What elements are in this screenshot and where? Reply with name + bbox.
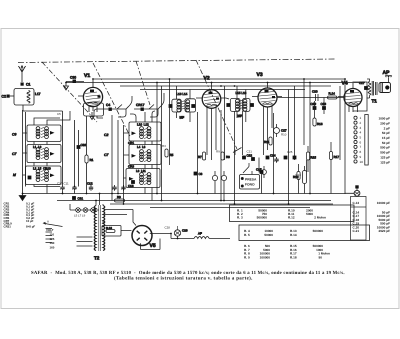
core hatches MF1: [182, 101, 185, 109]
wire C11b down: [74, 191, 76, 194]
svg-text:50000: 50000: [264, 233, 273, 237]
chassis dash-dot horizontal line: [18, 59, 335, 63]
middle coil box A: [129, 122, 161, 141]
vertical wire x161.5: [161, 86, 163, 201]
tube V2: [196, 76, 226, 115]
core hatches mbox C: [144, 175, 147, 185]
svg-text:2920 pF: 2920 pF: [378, 229, 390, 233]
svg-text:C18: C18: [321, 102, 327, 106]
svg-text:2: 2: [360, 121, 362, 125]
wire V1 cathode down: [87, 116, 104, 155]
wire C29 stub: [177, 236, 179, 238]
coil L3: [45, 127, 49, 139]
core hatches mbox B: [144, 152, 147, 162]
svg-text:C31: C31: [78, 197, 84, 201]
coil L2b: [36, 170, 40, 182]
coil L12: [147, 127, 151, 139]
trimmer arrow box A: [50, 131, 55, 135]
jack circle J1: [212, 171, 217, 185]
capacitor C1: [21, 83, 31, 87]
resistor R15 vertical: [329, 152, 339, 160]
svg-text:C32: C32: [81, 143, 87, 147]
wire V2 plate link: [226, 98, 229, 99]
wire C32 vertical: [78, 130, 80, 187]
svg-text:6: 6: [360, 140, 362, 144]
svg-text:C19: C19: [311, 102, 317, 106]
tube V1: [78, 73, 103, 112]
resistor R2 horizontal: [115, 195, 125, 202]
vertical wire x234.5: [234, 111, 236, 204]
svg-text:C7: C7: [104, 153, 108, 157]
ground left of V1: [64, 83, 69, 91]
svg-text:R15: R15: [311, 156, 317, 160]
wire left column A: [22, 110, 24, 194]
dial lamp 2: [83, 208, 88, 213]
resistor R15b vertical: [306, 152, 316, 160]
wire x259: [259, 158, 262, 194]
svg-text:5000: 5000: [306, 212, 313, 216]
capacitor C12 hatched: [87, 182, 93, 191]
capacitor C26 blob: [293, 156, 297, 160]
lamp jack circle right: [345, 185, 360, 196]
middle coil box B: [129, 145, 161, 165]
R table box 2: [239, 225, 370, 241]
svg-text:C24: C24: [270, 154, 276, 158]
voltage selector arm: [44, 222, 63, 226]
svg-text:R7: R7: [198, 155, 202, 159]
capacitor C18b blob: [194, 172, 203, 176]
coil L4: [140, 150, 144, 162]
electrolytic C13 small: [262, 166, 267, 178]
svg-text:R.14: R.14: [290, 233, 297, 237]
presa fono box: [240, 175, 260, 190]
vertical wire x64: [30, 111, 63, 185]
svg-text:C22: C22: [247, 154, 253, 158]
svg-text:L1 L3: L1 L3: [33, 145, 42, 149]
MF1 top wires: [177, 86, 191, 122]
top bus wire 1: [93, 78, 345, 80]
wire V2 pins down: [207, 114, 216, 160]
svg-text:R. 5: R. 5: [244, 233, 250, 237]
capacitor C19 blob: [311, 102, 317, 110]
resistor R14 on line: [328, 92, 338, 100]
coil L8: [140, 173, 144, 185]
svg-text:FONO: FONO: [245, 183, 255, 187]
vertical wire x242.5: [242, 111, 244, 155]
svg-text:C.13: C.13: [353, 201, 360, 205]
svg-text:PRESA: PRESA: [245, 178, 257, 182]
fuse box R18: [102, 226, 121, 237]
svg-text:R5: R5: [170, 153, 174, 157]
wire jacks down: [215, 185, 224, 201]
tube V3: [252, 72, 282, 113]
capacitor C16 in box C: [128, 180, 135, 188]
IF transformer MF1 box L14: [185, 99, 196, 112]
IF transformer MF1 box L13: [172, 99, 181, 112]
dial lamp 1: [76, 208, 81, 213]
svg-text:160: 160: [50, 245, 55, 249]
svg-text:C7: C7: [12, 152, 16, 156]
wire C10b down: [62, 191, 64, 194]
capacitor C2: [2, 95, 15, 99]
vertical wire x197.5: [197, 112, 199, 194]
CR capacitor table: [4, 202, 36, 229]
capacitor C17b blob: [364, 86, 368, 90]
wires T2 to V5: [77, 210, 161, 250]
svg-text:5: 5: [360, 136, 362, 140]
svg-text:500 pF: 500 pF: [380, 146, 390, 150]
tube V5: [132, 226, 156, 250]
svg-text:R16: R16: [317, 122, 323, 126]
T2 top connections: [96, 194, 103, 206]
left coil box A: [27, 125, 61, 142]
vertical wire x157: [156, 83, 158, 194]
vertical wire x310: [309, 83, 311, 194]
svg-text:R17: R17: [334, 155, 340, 159]
capacitor C32 blob: [77, 143, 87, 149]
svg-text:9: 9: [360, 155, 362, 159]
vertical wire x221: [220, 110, 222, 201]
lamp wires: [70, 204, 99, 210]
svg-text:10000 pF: 10000 pF: [377, 201, 390, 205]
vertical wire x169.5: [169, 79, 171, 165]
hook wire S1b: [118, 96, 132, 117]
svg-text:50 pF: 50 pF: [382, 131, 390, 135]
cathode arrow V1: [90, 112, 94, 120]
socket circles under V4: [354, 116, 357, 163]
middle coil box C: [126, 169, 160, 188]
C labels box: [351, 197, 367, 241]
capacitor C15 blob: [256, 168, 263, 174]
electrolytic C27 under V3: [274, 124, 287, 137]
capacitor C30: [70, 76, 76, 84]
svg-text:50 pF: 50 pF: [382, 141, 390, 145]
hook wire S2b: [150, 93, 164, 117]
coil L16: [243, 99, 247, 111]
svg-text:V5: V5: [150, 243, 156, 249]
svg-text:C28: C28: [165, 226, 171, 230]
svg-text:CR21: CR21: [4, 225, 12, 229]
svg-text:7: 7: [360, 145, 362, 149]
capacitor C25h hatched: [274, 157, 278, 163]
left coil box C: [26, 166, 62, 185]
svg-text:R8: R8: [226, 155, 230, 159]
capacitor C20 on line: [312, 90, 318, 102]
svg-text:R3: R3: [117, 195, 121, 199]
coil L3b: [45, 148, 49, 160]
svg-text:1: 1: [360, 116, 362, 120]
blob cap MF2 left: [226, 103, 230, 107]
dash-dot gang link D3: [136, 61, 150, 105]
svg-text:8: 8: [360, 150, 362, 154]
bottom ground bus: [23, 193, 346, 195]
wire C30 to V1: [66, 81, 84, 83]
svg-text:C21: C21: [247, 150, 253, 154]
left coil box B: [27, 145, 61, 163]
svg-text:T2: T2: [94, 256, 100, 261]
IF transformer MF2 box L16: [243, 98, 251, 111]
svg-text:L2 L5 CR10: L2 L5 CR10: [33, 166, 51, 170]
wire to switch from box top: [34, 111, 70, 125]
svg-text:C12: C12: [87, 182, 93, 186]
hook wire S1 to box: [94, 109, 103, 116]
coil L13: [177, 100, 181, 112]
capacitor C34 hatched: [112, 185, 116, 191]
wire V3 pins down: [264, 113, 273, 155]
vertical wire x306: [306, 160, 308, 172]
svg-text:500000: 500000: [257, 216, 268, 220]
dash-dot gang link D4: [196, 60, 237, 149]
svg-text:C2: C2: [104, 133, 108, 137]
svg-text:CR3: CR3: [128, 165, 134, 169]
resistor R11 under V3: [264, 137, 272, 145]
capacitor C25 blob: [284, 156, 288, 160]
electrolytic C29: [174, 226, 188, 236]
resistor R1 vertical: [85, 155, 94, 163]
coil L15: [235, 99, 239, 111]
resistor value table: [237, 208, 330, 259]
tube V4: [338, 81, 362, 113]
svg-text:125 pF: 125 pF: [380, 155, 390, 159]
power transformer T2: [94, 205, 105, 261]
svg-text:M: M: [13, 173, 16, 177]
svg-text:L4 L6: L4 L6: [137, 145, 146, 149]
svg-text:L13 L14: L13 L14: [177, 92, 188, 96]
core hatches MF2: [241, 100, 243, 108]
capacitor C23 blob: [251, 157, 255, 161]
dash-dot gang link D1: [42, 62, 97, 122]
vertical wire x273.5: [273, 113, 275, 194]
trimmer arrow mbox B: [132, 154, 137, 158]
svg-text:R10: R10: [281, 133, 287, 137]
capacitor C24 blob: [266, 154, 276, 160]
vertical wire x294.5: [294, 86, 296, 160]
bottom bus 4: [150, 207, 310, 209]
svg-text:A: A: [47, 220, 49, 224]
svg-text:R11: R11: [264, 140, 270, 144]
svg-text:C10 C11: C10 C11: [57, 182, 69, 186]
wire box tops to switch: [130, 111, 155, 122]
blob cap MF2 right: [250, 103, 254, 107]
svg-text:C9: C9: [12, 133, 16, 137]
svg-text:L17: L17: [35, 92, 41, 96]
svg-text:C16: C16: [128, 184, 134, 188]
capacitor C18 blob: [321, 102, 327, 110]
trimmer arrow box C: [50, 174, 55, 178]
svg-text:C20: C20: [312, 90, 318, 94]
svg-text:V3: V3: [257, 72, 263, 78]
svg-text:C25: C25: [287, 150, 293, 154]
MF2 top wires: [237, 86, 246, 122]
resistor R7 col: [198, 152, 206, 160]
wires left boxes to columns: [23, 133, 61, 194]
wires middle boxes verticals: [112, 115, 124, 204]
output box around V4 plate: [353, 82, 368, 111]
svg-text:100000: 100000: [260, 255, 271, 259]
core hatches box C: [41, 171, 44, 181]
capacitor C17 top: [359, 81, 365, 85]
R table box: [230, 205, 355, 222]
wire antenna box down: [23, 105, 30, 111]
vertical wire x304: [303, 79, 305, 145]
svg-text:MF: MF: [238, 114, 243, 118]
svg-text:C.21: C.21: [353, 229, 360, 233]
svg-text:R.12: R.12: [288, 216, 295, 220]
scattered small labels: [57, 112, 301, 230]
trimmer arrow mbox C: [129, 177, 134, 181]
switch S2 with CR17: [134, 103, 161, 111]
right capacitor values column 2: [353, 201, 391, 233]
wire V3 to V4 plate line: [277, 97, 344, 99]
coil L11: [147, 173, 151, 185]
svg-text:2 pF: 2 pF: [384, 126, 390, 130]
resistor R5 col: [165, 149, 174, 157]
choke AF: [171, 232, 230, 239]
svg-text:90: 90: [319, 255, 323, 259]
vertical wire x224.5: [224, 86, 226, 160]
core hatches box A: [41, 128, 44, 138]
antenna coil box: [14, 89, 34, 106]
coil L6: [147, 150, 151, 162]
switch S1 with C4: [103, 103, 129, 111]
vertical wire x340: [339, 86, 341, 160]
svg-text:R13: R13: [296, 173, 302, 177]
top bus wire 4: [140, 89, 305, 91]
svg-text:V1: V1: [84, 73, 90, 79]
svg-text:125 pF: 125 pF: [380, 160, 390, 164]
svg-text:R1: R1: [90, 158, 94, 162]
svg-text:C30: C30: [70, 76, 76, 80]
right capacitor values column 1: [378, 117, 390, 165]
top bus wire 3: [120, 85, 331, 87]
trimmer arrow mbox A: [132, 132, 137, 136]
svg-text:C1: C1: [26, 83, 31, 87]
svg-text:3: 3: [360, 126, 362, 130]
blob cap MF1 left: [169, 104, 173, 108]
switch above presa fono: [243, 163, 252, 175]
svg-text:L8 L11: L8 L11: [136, 169, 146, 173]
svg-text:200 pF: 200 pF: [380, 121, 390, 125]
socket box under V1: [84, 103, 104, 116]
svg-text:4: 4: [360, 131, 362, 135]
svg-text:L5 L7 L9: L5 L7 L9: [74, 214, 86, 218]
svg-text:CR1: CR1: [128, 141, 134, 145]
coil L5: [45, 170, 49, 182]
svg-text:C4: C4: [106, 103, 110, 107]
svg-text:T1: T1: [372, 99, 378, 104]
svg-text:R9: R9: [216, 150, 220, 154]
core hatches mbox A: [144, 129, 147, 139]
capacitor C22 blob: [242, 154, 252, 160]
svg-text:500 pF: 500 pF: [380, 151, 390, 155]
svg-text:10: 10: [360, 160, 364, 164]
dial lamp 3: [91, 208, 96, 213]
svg-text:R. 3: R. 3: [237, 216, 243, 220]
svg-text:C8: C8: [199, 172, 203, 176]
capacitor C10b hatched: [60, 185, 64, 191]
svg-text:R. 9: R. 9: [244, 255, 250, 259]
socket pin numbers: [360, 116, 364, 164]
blob cap MF1 right: [191, 104, 195, 108]
trimmer arrow box B: [50, 152, 55, 156]
svg-text:R.18: R.18: [290, 255, 297, 259]
svg-text:V2: V2: [204, 76, 210, 82]
svg-text:MF: MF: [180, 116, 185, 120]
VOLT label: [46, 228, 55, 249]
capacitor C35 hatched: [121, 185, 125, 191]
svg-text:R.18: R.18: [106, 226, 112, 230]
wire R1 down: [86, 163, 88, 194]
svg-text:15 pF: 15 pF: [382, 136, 390, 140]
vertical wire x288.5: [288, 90, 290, 205]
resistor R8 col: [221, 152, 230, 160]
svg-text:L10 L12: L10 L12: [137, 123, 149, 127]
ground arrow bottom left: [19, 194, 26, 201]
switch arm at D4 end: [233, 148, 242, 156]
antenna: [18, 66, 25, 82]
svg-text:R.14: R.14: [329, 92, 336, 96]
svg-text:1000 pF: 1000 pF: [378, 117, 390, 121]
electrolytic block: [303, 166, 307, 194]
jack circle J2: [221, 171, 226, 185]
coil L1: [36, 148, 40, 160]
svg-text:CR17: CR17: [136, 103, 145, 107]
coil L10: [140, 127, 144, 139]
dial rectangle: [365, 115, 368, 166]
svg-text:C2: C2: [2, 95, 7, 99]
svg-text:2 Mohm: 2 Mohm: [314, 216, 326, 220]
svg-text:C17: C17: [359, 81, 365, 85]
svg-text:10 µF: 10 µF: [26, 219, 34, 223]
output transformer T1: [367, 79, 378, 104]
svg-text:(Tabella tensioni e istruzioni: (Tabella tensioni e istruzioni taratura …: [114, 275, 253, 281]
capacitor C11b hatched: [72, 185, 76, 191]
speaker AP: [379, 70, 392, 93]
coil L17: [27, 91, 41, 104]
coil L2: [36, 127, 40, 139]
coil L14: [186, 100, 190, 112]
bottom bus 2: [57, 200, 331, 202]
svg-text:AP: AP: [383, 70, 391, 76]
top bus wire 2: [66, 82, 365, 84]
vertical wire x345: [344, 79, 346, 194]
bottom bus 3: [110, 203, 333, 205]
svg-text:AF: AF: [198, 232, 202, 236]
IF transformer MF2 box L15: [230, 98, 240, 111]
wire R15 stubs: [308, 142, 331, 194]
svg-text:C5: C5: [57, 112, 61, 116]
svg-text:R4: R4: [162, 144, 166, 148]
svg-text:SAFAR - Mod. 538 A, 538 R, 5: SAFAR - Mod. 538 A, 538 R, 538 RF e 5310…: [31, 270, 345, 276]
wire left column B: [25, 112, 27, 187]
wire stubs C18 C19: [315, 98, 325, 119]
capacitor C31 blob: [72, 196, 83, 200]
core hatches box B: [41, 149, 44, 159]
wires middle box stubs: [124, 133, 153, 201]
dash-dot gang link D2: [93, 63, 130, 136]
svg-text:C29: C29: [182, 229, 188, 233]
svg-text:500000: 500000: [313, 229, 324, 233]
capacitor C4b in box C: [28, 176, 32, 180]
voltage selector contacts: [46, 229, 53, 243]
resistor R16 vertical: [313, 118, 323, 126]
resistor R12 vertical: [293, 172, 300, 180]
wire R12 stubs: [298, 164, 300, 194]
wires V5 right: [150, 234, 171, 250]
vertical wire x71: [74, 120, 76, 185]
svg-text:8+8 µF: 8+8 µF: [26, 225, 35, 229]
